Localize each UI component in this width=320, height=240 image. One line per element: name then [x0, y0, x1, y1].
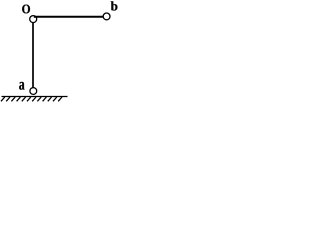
wire link O-a — [32, 23, 34, 88]
node O label — [22, 5, 30, 14]
node a label — [19, 82, 24, 90]
pin joint b — [103, 13, 110, 20]
wire link O-b — [34, 16, 104, 18]
pin joint a — [30, 88, 37, 95]
node b label — [111, 1, 118, 10]
ground — [1, 97, 68, 102]
pin joint O — [30, 16, 37, 23]
background — [0, 0, 118, 104]
